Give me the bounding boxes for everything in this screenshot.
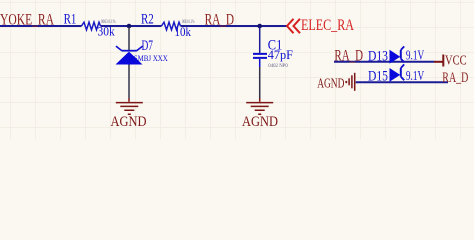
svg-text:SMBJ XXX: SMBJ XXX: [134, 53, 168, 63]
svg-text:D13: D13: [368, 49, 388, 65]
svg-text:0402 NP0: 0402 NP0: [268, 63, 288, 69]
svg-text:0603 0.1%: 0603 0.1%: [182, 19, 195, 25]
svg-text:AGND: AGND: [242, 114, 278, 130]
svg-text:9.1V: 9.1V: [406, 68, 424, 83]
svg-text:RA_D: RA_D: [205, 11, 235, 28]
svg-text:R2: R2: [141, 12, 154, 28]
svg-text:47pF: 47pF: [268, 47, 293, 62]
svg-text:0603 0.1%: 0603 0.1%: [101, 19, 116, 25]
svg-text:RA_D: RA_D: [334, 47, 363, 64]
svg-text:R1: R1: [64, 12, 77, 28]
svg-text:30k: 30k: [98, 24, 116, 39]
svg-text:9.1V: 9.1V: [406, 47, 424, 62]
svg-text:AGND: AGND: [111, 114, 147, 130]
svg-text:VCC: VCC: [445, 53, 467, 68]
svg-text:AGND: AGND: [317, 76, 344, 91]
svg-text:D7: D7: [142, 38, 154, 54]
svg-text:ELEC_RA: ELEC_RA: [301, 17, 354, 34]
svg-text:10k: 10k: [175, 24, 192, 39]
svg-text:D15: D15: [368, 69, 388, 85]
svg-text:RA_D: RA_D: [442, 70, 468, 86]
svg-text:YOKE_RA: YOKE_RA: [0, 11, 54, 28]
